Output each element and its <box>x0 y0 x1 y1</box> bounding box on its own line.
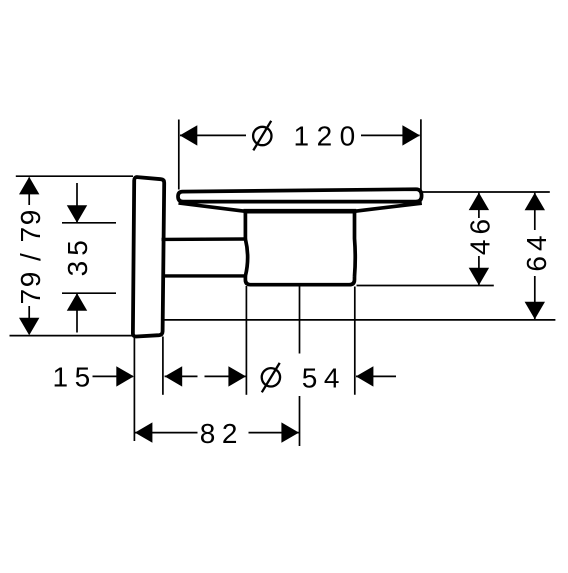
dimension 15: left leader and arrow <box>93 375 134 377</box>
svg-text:120: 120 <box>294 121 363 152</box>
dimension Ø120: extension line right <box>420 119 422 190</box>
dimension 46: dimension line <box>478 193 480 285</box>
dimension 79/79: bottom extension line <box>10 335 133 337</box>
dimension 35: dimension line <box>76 183 78 333</box>
dimension 79/79: dimension line <box>28 178 30 321</box>
svg-text:35: 35 <box>62 235 93 276</box>
dimension 46: bottom extension line <box>357 285 494 287</box>
dimension Ø54: right leader and arrow <box>356 375 396 377</box>
dish underside bottom edge <box>244 209 357 214</box>
dimension Ø120: diameter symbol <box>253 121 271 151</box>
dimension 64: up arrow <box>525 193 545 211</box>
dimension Ø54: left leader and arrow <box>205 375 246 377</box>
dimension Ø120: left arrow <box>180 125 198 145</box>
svg-text:64: 64 <box>521 230 552 271</box>
dimension Ø54: diameter symbol <box>262 363 280 392</box>
soap dish plate (capsule) <box>178 189 422 201</box>
dimension 46/64: top extension line <box>423 191 550 193</box>
dimension Ø120: extension line left <box>178 120 180 190</box>
dimension 82: left leader and arrow <box>135 432 198 434</box>
dimension 79/79: top extension line <box>16 175 133 177</box>
dimension 15: left extension line <box>133 338 135 442</box>
dish underside right slant <box>355 203 422 211</box>
dimension 64: down arrow <box>525 302 545 320</box>
dimension Ø120: dimension line <box>180 134 420 136</box>
dimension 79/79: down arrow <box>19 318 39 336</box>
dimension 15: right leader and arrow <box>165 375 198 377</box>
dimension Ø54: right extension line <box>354 287 356 395</box>
svg-text:46: 46 <box>465 214 496 255</box>
dimension Ø120: right arrow <box>402 125 420 145</box>
dimension 35: lower tick <box>62 292 116 294</box>
wall plate <box>133 177 164 336</box>
dish underside left slant <box>179 203 245 211</box>
dimension 35: upper tick <box>62 222 116 224</box>
dimension 46: down arrow <box>469 268 489 286</box>
arm top edge <box>162 237 246 241</box>
dimension 82: right leader and arrow <box>249 432 299 434</box>
dimension 46: up arrow <box>469 193 489 211</box>
dimension 64: bottom extension line <box>164 319 556 321</box>
svg-text:82: 82 <box>200 418 244 449</box>
dimension 64: dimension line <box>534 193 536 320</box>
dimension 79/79: up arrow <box>19 177 39 195</box>
dimension 15: right extension line <box>162 337 164 395</box>
svg-text:79 / 79: 79 / 79 <box>15 208 46 304</box>
dimension 82: centre extension line <box>299 286 301 446</box>
dimension 35: up arrow <box>67 293 87 311</box>
tumbler holder cup <box>245 209 355 284</box>
svg-text:15: 15 <box>53 362 97 393</box>
dimension 35: down arrow <box>67 205 87 223</box>
svg-text:54: 54 <box>302 363 346 394</box>
arm bottom edge <box>162 274 246 277</box>
dimension Ø54: left extension line <box>245 286 247 395</box>
